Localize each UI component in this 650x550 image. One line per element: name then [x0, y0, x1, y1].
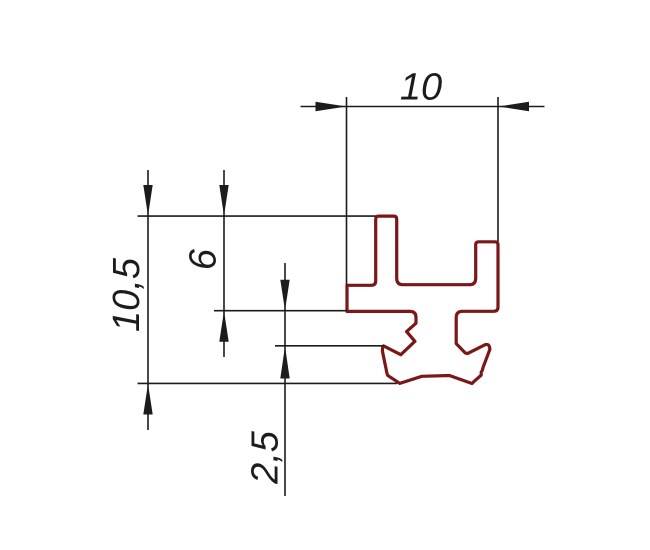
bottom extension line: [214, 310, 347, 312]
dim line: [301, 106, 545, 108]
dim line: [284, 263, 286, 496]
svg-text:6: 6: [183, 248, 225, 270]
dim line: [147, 170, 149, 430]
svg-text:2,5: 2,5: [245, 430, 287, 485]
svg-text:10: 10: [400, 67, 442, 109]
dimension "10" (top): [301, 97, 545, 285]
right extension line: [497, 97, 499, 242]
gasket profile outline: [347, 216, 498, 383]
svg-text:10,5: 10,5: [106, 257, 148, 332]
top extension line: [138, 215, 376, 217]
bottom extension line: [138, 382, 398, 384]
dimension "6": [214, 170, 347, 357]
arrows for "10": [316, 102, 347, 111]
dimension "10,5" (left): [138, 170, 398, 430]
left extension line: [346, 97, 348, 285]
dimension "2,5": [275, 263, 384, 496]
top extension line: [275, 345, 384, 347]
dim line: [223, 170, 225, 357]
